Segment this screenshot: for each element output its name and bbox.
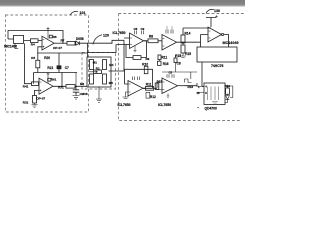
svg-text:ICL7650: ICL7650 [158, 103, 171, 107]
svg-text:MIC1400: MIC1400 [4, 45, 17, 49]
svg-text:R61: R61 [51, 78, 57, 82]
svg-text:74HC76: 74HC76 [211, 64, 224, 68]
svg-text:MC14049: MC14049 [223, 41, 239, 45]
svg-text:R15: R15 [185, 52, 191, 56]
svg-text:120: 120 [103, 34, 109, 38]
svg-text:M2: M2 [80, 82, 84, 86]
svg-text:C8: C8 [134, 27, 138, 31]
svg-text:R11: R11 [162, 56, 168, 60]
svg-text:R12: R12 [150, 95, 156, 99]
svg-text:QD4700: QD4700 [205, 106, 217, 110]
svg-text:R10: R10 [142, 63, 148, 67]
svg-text:R20: R20 [44, 56, 50, 60]
svg-text:R11: R11 [146, 83, 152, 87]
svg-text:OP-07: OP-07 [53, 46, 62, 50]
svg-text:R9: R9 [146, 57, 150, 61]
svg-text:R21: R21 [47, 66, 53, 70]
svg-text:101: 101 [80, 11, 86, 15]
svg-text:CM08: CM08 [80, 92, 88, 96]
svg-text:R5: R5 [31, 56, 35, 60]
svg-text:ICL7650: ICL7650 [113, 31, 126, 35]
svg-text:R19: R19 [225, 84, 231, 88]
svg-text:C7: C7 [65, 66, 69, 70]
svg-text:C8: C8 [177, 62, 181, 66]
svg-text:130: 130 [214, 9, 220, 13]
svg-text:R15: R15 [175, 54, 181, 58]
svg-text:R6: R6 [53, 35, 57, 39]
svg-text:C9: C9 [141, 27, 145, 31]
svg-text:R7: R7 [61, 38, 65, 42]
svg-text:R1: R1 [96, 66, 100, 70]
svg-text:M3: M3 [109, 81, 113, 85]
svg-text:D056: D056 [76, 37, 84, 41]
svg-text:M1: M1 [93, 61, 97, 65]
svg-text:R71: R71 [58, 85, 64, 89]
svg-text:R14: R14 [185, 31, 191, 35]
svg-text:OP-07: OP-07 [36, 97, 45, 101]
svg-text:18: 18 [197, 91, 201, 95]
svg-text:R31: R31 [23, 101, 29, 105]
svg-text:R8: R8 [149, 35, 153, 39]
svg-text:C5: C5 [169, 70, 173, 74]
svg-text:R18: R18 [188, 85, 194, 89]
svg-text:R41: R41 [23, 85, 29, 89]
svg-text:ICL7650: ICL7650 [118, 103, 131, 107]
svg-text:R4: R4 [31, 43, 35, 47]
svg-text:M4: M4 [109, 63, 113, 67]
svg-text:R17: R17 [157, 79, 163, 83]
svg-text:R16: R16 [163, 62, 169, 66]
